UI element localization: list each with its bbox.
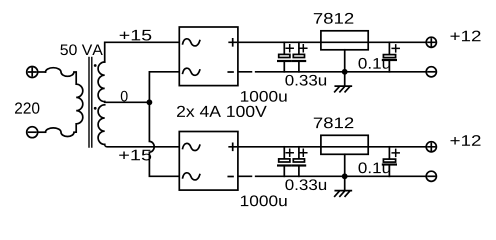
- capacitor C1 1000u: [278, 42, 293, 72]
- capacitor C3 0.1u: [383, 42, 399, 72]
- bridge rectifier B2 box: [179, 132, 238, 191]
- label +15 secondary bottom: [119, 150, 151, 161]
- label 7812 U1: [314, 13, 354, 24]
- label +15 secondary top: [120, 30, 152, 41]
- regulator U2 ground pin: [344, 154, 346, 176]
- capacitor C6 0.1u: [383, 147, 399, 177]
- wire node 0 up to bridge B1 ac2: [149, 72, 178, 103]
- bridge B1 plus output mark: [229, 39, 236, 46]
- label 0.1u C6 value: [358, 162, 389, 173]
- label 0 center tap: [121, 91, 128, 102]
- label +12 output top: [450, 31, 480, 42]
- label +12 output bottom: [450, 135, 480, 146]
- wire 0V rail top section (with small gap artifact): [239, 71, 426, 73]
- transformer T1 secondary winding B (bottom): [98, 105, 105, 145]
- wire +15 bottom: winding B bottom to bridge B2 ac1: [105, 144, 179, 146]
- regulator U1 ground pin: [344, 50, 346, 72]
- polarity dot winding A: [94, 64, 97, 67]
- wire V+ rail top section: [239, 41, 426, 43]
- regulator U2 7812 box: [321, 135, 368, 154]
- label 1000u C4 value: [241, 195, 287, 206]
- bridge B2 ac2 tilde: [183, 173, 200, 180]
- terminal 0V output bottom: [426, 171, 436, 181]
- wire from P2 to primary: [38, 131, 46, 133]
- wire +15 top: winding A top to bridge B1 ac1: [105, 42, 179, 62]
- label 7812 U2: [314, 117, 354, 128]
- bridge B2 minus output mark: [228, 176, 233, 178]
- label 2x 4A 100V bridge rating: [177, 106, 267, 117]
- wire from P1 to primary: [38, 71, 46, 73]
- transformer T1 core: [89, 58, 92, 148]
- wire V+ rail bottom section: [239, 146, 426, 148]
- label 1000u C1 value: [241, 91, 287, 102]
- terminal +12 output bottom: [426, 142, 436, 152]
- capacitor C4 1000u: [278, 147, 293, 177]
- junction dot U2 ground: [342, 173, 348, 179]
- bridge B1 minus output mark: [228, 71, 233, 73]
- capacitor C2 0.33u: [293, 42, 307, 72]
- label 0.1u C3 value: [358, 58, 389, 69]
- terminal +12 output top: [426, 37, 436, 47]
- regulator U1 7812 box: [321, 31, 368, 50]
- junction dot U1 ground: [342, 69, 348, 75]
- bridge B1 ac2 tilde: [183, 68, 200, 75]
- wire 0V rail bottom section (with small gap artifact): [239, 175, 426, 177]
- wire center tap to node 0: [105, 101, 150, 104]
- bridge B2 plus output mark: [229, 143, 236, 150]
- transformer T1 secondary winding A (top): [98, 62, 105, 102]
- label 50 VA transformer rating: [60, 44, 102, 55]
- ground symbol top: [335, 72, 352, 92]
- polarity dot winding B: [94, 107, 97, 110]
- capacitor C5 0.33u: [293, 147, 307, 177]
- ground symbol bottom: [335, 176, 352, 196]
- terminal P2 (-) 220V neutral input: [27, 127, 38, 138]
- label 0.33u C5 value: [285, 179, 326, 190]
- wire node 0 down with crossover hop to bridge B2 ac2: [149, 102, 178, 176]
- bridge B1 ac1 tilde: [183, 39, 200, 46]
- transformer T1 primary winding: [45, 68, 82, 137]
- terminal 0V output top: [426, 67, 436, 77]
- bridge B2 ac1 tilde: [183, 143, 200, 150]
- label 220 mains voltage: [15, 102, 39, 113]
- terminal P1 (+) 220V live input: [27, 67, 38, 78]
- junction dot node 0: [147, 99, 153, 105]
- label 0.33u C2 value: [285, 75, 326, 86]
- bridge rectifier B1 box: [179, 27, 238, 86]
